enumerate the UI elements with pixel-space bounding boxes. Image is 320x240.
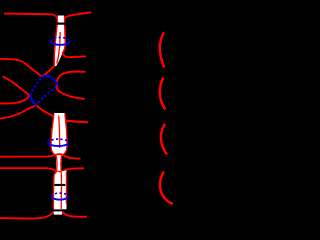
waist right edge xyxy=(60,156,63,171)
cross-section ellipse E1 dashed back xyxy=(51,38,70,42)
tube T1 bottom-right flare line xyxy=(63,53,87,57)
tube T3 left edge xyxy=(53,171,56,210)
tube T3 white body xyxy=(53,171,66,215)
tube T3 bottom-right fan xyxy=(62,212,87,217)
short line right of T2 top xyxy=(66,121,88,123)
cross-section ellipse E3 dashed back xyxy=(52,193,68,196)
tube T1 middle seam xyxy=(57,32,61,64)
node C line to lower-left xyxy=(0,106,35,119)
node C line to tube T2 xyxy=(36,106,54,117)
diamond edge A-D dashed xyxy=(31,79,41,95)
tube T3 right edge xyxy=(65,172,67,204)
horizontal layer line L1 xyxy=(0,154,81,158)
tube T2 left outer edge xyxy=(51,114,56,156)
cross-section ellipse E3 solid front xyxy=(52,196,68,199)
tube T1 right edge xyxy=(63,17,66,53)
waist left edge xyxy=(55,156,58,171)
cross-section arc 1 xyxy=(160,32,165,67)
diamond edge B-C dashed xyxy=(38,87,57,104)
field line top-right xyxy=(65,12,92,17)
tube T3 bottom-left fan xyxy=(0,212,53,219)
tube T3 photosphere cap (black bar) xyxy=(53,209,63,211)
tube T3 upper black bar xyxy=(54,184,65,186)
cross-section ellipse E2 solid front xyxy=(48,143,68,146)
tube T1 tip to node A xyxy=(42,66,55,77)
tube T2 middle seam xyxy=(59,116,60,149)
cross-section ellipse E2 dashed back xyxy=(48,139,68,142)
field line R1 left to node A xyxy=(0,59,42,77)
cross-section arc 4 xyxy=(160,172,173,205)
field line top-left xyxy=(4,14,56,17)
tube T1 photosphere cap (black bar) xyxy=(56,23,65,25)
cross-section arc 3 xyxy=(161,124,167,155)
tube T2 white body xyxy=(51,113,68,171)
tube T3 middle seam xyxy=(60,172,62,209)
reconnected line wrapping node B (C-shape right) xyxy=(56,72,85,100)
diamond edge A-B solid xyxy=(41,76,57,85)
flux tube T1 (top) white body xyxy=(54,16,65,67)
cross-section arc 2 xyxy=(160,78,166,110)
reconnected line wrapping node D (left arc) xyxy=(0,77,29,104)
tube T2 right outer edge xyxy=(62,113,67,156)
cross-section ellipse E1 solid front xyxy=(51,41,70,45)
horizontal layer line L2 xyxy=(0,168,84,172)
tube T1 left edge xyxy=(54,17,57,67)
diamond edge D-C solid xyxy=(30,95,36,105)
short line right of T2 top arrow blob xyxy=(66,120,70,122)
